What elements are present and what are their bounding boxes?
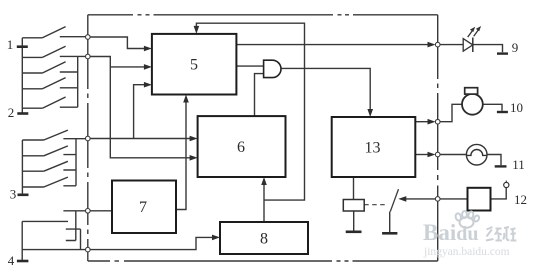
wire relay contact to ground bar bbox=[389, 212, 391, 233]
bell HA11 body circle bbox=[466, 144, 487, 165]
antenna tick bbox=[505, 181, 507, 183]
wire branch to block 5 input 3 bbox=[134, 85, 146, 139]
jack connector J4 left bus bbox=[21, 221, 23, 261]
switch S1 row5 bbox=[22, 97, 77, 108]
svg-text:Baidu: Baidu bbox=[423, 220, 478, 245]
LED VD9 cathode bar bbox=[472, 38, 474, 53]
arrow into block 5 input 1 bbox=[144, 46, 152, 52]
enclosure boundary top edge (chain line) bbox=[88, 14, 438, 16]
block 5 bbox=[152, 34, 237, 95]
relay coil K bbox=[343, 200, 364, 212]
terminal bar 11 bbox=[495, 165, 507, 167]
jack J4 plug prong bbox=[22, 220, 68, 222]
wire block 13 output to node 10 bbox=[415, 121, 430, 123]
svg-text:3: 3 bbox=[10, 187, 17, 202]
enclosure boundary left edge (chain line) bbox=[87, 15, 89, 261]
wire node 12 to receiver box 12 bbox=[438, 198, 468, 200]
switch S1 row4 bbox=[22, 78, 77, 89]
wire node C to block 6 input 1 bbox=[88, 138, 192, 140]
svg-text:jingyan.baidu.com: jingyan.baidu.com bbox=[423, 246, 510, 258]
svg-text:8: 8 bbox=[260, 231, 268, 248]
svg-text:5: 5 bbox=[190, 57, 198, 74]
wire node 11 to lamp bbox=[438, 154, 467, 156]
wire block 7 output to block 5 bottom bbox=[176, 101, 186, 210]
antenna circle 12 bbox=[504, 182, 509, 187]
relay contact arm bbox=[390, 189, 398, 211]
terminal bar 9 bbox=[497, 52, 508, 54]
arrow into block 5 input 3 bbox=[144, 82, 152, 88]
svg-text:10: 10 bbox=[510, 100, 523, 115]
wire node 12 to relay contact (arrow left) bbox=[404, 198, 438, 200]
wire block 8 output to block 6 bottom bbox=[263, 184, 265, 223]
switch S3 row2 bbox=[22, 146, 76, 156]
svg-text:1: 1 bbox=[7, 37, 14, 52]
terminal bar 2 bbox=[17, 112, 28, 115]
wire block 13 output to node 11 bbox=[415, 154, 430, 156]
node 12 bbox=[435, 197, 440, 202]
switch S3 row4 bbox=[22, 177, 76, 187]
arrow into block 8 input bbox=[212, 235, 220, 241]
switch S3 row1 moving contact bbox=[22, 130, 68, 140]
LED VD9 diode triangle bbox=[463, 39, 473, 52]
svg-text:9: 9 bbox=[512, 40, 519, 55]
switch S3 row1 fixed contact to node C bbox=[63, 138, 87, 140]
enclosure boundary bottom edge (chain line) bbox=[88, 260, 438, 262]
terminal bar 1 bbox=[17, 45, 28, 48]
enclosure boundary right edge (chain line) bbox=[437, 15, 439, 261]
node 10 bbox=[435, 119, 440, 124]
svg-text:7: 7 bbox=[139, 199, 147, 216]
wire block 13 bottom to relay coil K bbox=[353, 177, 355, 200]
svg-text:13: 13 bbox=[365, 140, 381, 157]
wire box 12 to antenna bbox=[491, 188, 507, 199]
node B bbox=[86, 54, 91, 59]
AND gate U1 bbox=[264, 60, 281, 77]
watermark CJK strokes (经验) bbox=[486, 227, 516, 241]
switch S1 row1 moving contact bbox=[22, 27, 65, 38]
switch S1 row1 fixed contact to node A bbox=[60, 36, 88, 38]
horn HA10 top cap bbox=[465, 88, 478, 94]
wire LED to terminal 9 bbox=[473, 45, 503, 53]
switch bank S1 fixed-side bus bbox=[77, 56, 79, 107]
arrow into relay contact bbox=[398, 196, 406, 202]
wire AND gate output to block 13 top bbox=[281, 68, 370, 111]
ground bar under relay coil bbox=[346, 231, 362, 234]
arrow into block 6 input 2 bbox=[190, 155, 198, 161]
wire block 5 output to node 9 bbox=[236, 44, 430, 46]
wire node D to block 7 bbox=[88, 210, 112, 212]
terminal bar 10 bbox=[497, 111, 508, 113]
node 9 bbox=[435, 42, 440, 47]
wire node A to block 5 input 1 bbox=[88, 37, 146, 49]
wire lamp to terminal 11 bbox=[487, 155, 501, 166]
LED emission arrow 2 bbox=[474, 29, 480, 37]
arrow into node 9 bbox=[428, 42, 436, 48]
svg-text:6: 6 bbox=[237, 139, 245, 156]
node C bbox=[86, 136, 91, 141]
wire block 5 to AND gate input 1 bbox=[236, 65, 263, 67]
jack J4 upper leaf contact bbox=[66, 229, 81, 250]
switch S1 row3 bbox=[22, 62, 77, 73]
mechanical linkage (dashed) relay coil to contact bbox=[364, 204, 388, 206]
node 11 bbox=[435, 152, 440, 157]
receiver box 12 bbox=[468, 188, 491, 211]
wire node E to block 8 input bbox=[88, 237, 214, 249]
Baidu watermark paw icon bbox=[455, 211, 480, 228]
arrow into node 10 bbox=[428, 119, 436, 125]
bell HA11 inner dome bbox=[467, 149, 487, 155]
arrowheads bbox=[144, 26, 436, 240]
wire feedback loop to block 5 top bbox=[196, 23, 304, 200]
svg-text:4: 4 bbox=[8, 253, 15, 268]
arrow into node 11 bbox=[428, 152, 436, 158]
switch S3 row3 bbox=[22, 161, 76, 171]
switch S1 row2 bbox=[22, 46, 88, 57]
svg-text:2: 2 bbox=[8, 105, 15, 120]
block 8 bbox=[220, 222, 308, 254]
jack J4 lower leaf contact bbox=[66, 211, 76, 241]
ground bar under relay contact bbox=[382, 232, 397, 235]
switch bank S1 (rows to terminal 1) left bus bbox=[21, 38, 23, 114]
arrow into block 6 input 1 bbox=[190, 136, 198, 142]
node A (terminal circle on boundary) bbox=[86, 35, 91, 40]
wire node 10 to horn bbox=[438, 104, 462, 121]
arrow into block 5 bottom bbox=[183, 95, 189, 103]
wire jack to node D bbox=[63, 210, 87, 212]
arrow into block 6 bottom bbox=[261, 177, 267, 185]
wire branch to block 5 input 2 bbox=[110, 66, 146, 68]
wire node B to block 6 input 2 bbox=[88, 57, 192, 158]
horn HA10 body circle bbox=[462, 94, 483, 115]
block 7 bbox=[112, 181, 176, 234]
block 13 bbox=[332, 117, 416, 177]
wire block 6 top to AND gate input 2 bbox=[255, 74, 264, 117]
arrow into block 5 top bbox=[194, 26, 200, 34]
LED emission arrow 1 bbox=[468, 30, 474, 38]
arrow into block 5 input 2 bbox=[144, 64, 152, 70]
terminal bar 3 bbox=[18, 194, 29, 197]
svg-text:11: 11 bbox=[512, 157, 525, 172]
block 6 bbox=[198, 116, 286, 177]
wire horn to terminal 10 bbox=[483, 104, 502, 111]
node E bbox=[86, 247, 91, 252]
wire relay coil to ground bar bbox=[353, 211, 355, 231]
wire node 9 to LED bbox=[438, 44, 464, 46]
arrow into block 13 top bbox=[367, 109, 373, 117]
terminal bar 4 bbox=[17, 260, 29, 263]
node D bbox=[86, 209, 91, 214]
switch bank S3 fixed-side bus bbox=[75, 139, 77, 186]
wire jack to node E bbox=[22, 249, 88, 251]
switch bank S3 left bus bbox=[21, 140, 23, 195]
svg-text:12: 12 bbox=[514, 192, 527, 207]
